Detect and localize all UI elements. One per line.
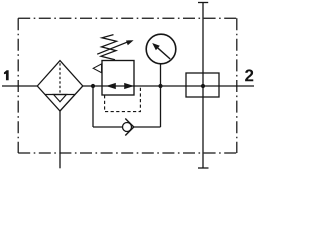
water separator line — [45, 94, 75, 96]
wire: drain line — [59, 111, 61, 168]
node A junction (bypass tap) — [91, 84, 95, 88]
wire: bypass bottom right segment — [134, 126, 161, 128]
wire: bypass down leg — [92, 86, 94, 127]
enclosure (unit boundary, dash-dot) — [18, 17, 237, 19]
regulator flow arrow left — [106, 83, 116, 89]
check valve V1 seat — [125, 119, 134, 136]
gauge needle head — [152, 43, 160, 50]
node C junction (branch) — [201, 84, 205, 88]
regulator relief vent triangle — [93, 64, 101, 73]
regulator flow arrow right — [124, 83, 134, 89]
wire: bypass return up leg — [160, 86, 162, 127]
wire: bypass bottom left segment — [93, 126, 123, 128]
wire: vertical branch line — [202, 3, 204, 169]
condensate drain triangle — [54, 95, 67, 102]
regulator spring — [101, 35, 117, 60]
branch module block — [186, 73, 219, 97]
regulator R1 body — [102, 61, 134, 96]
wire: inlet line port 1 to filter — [2, 85, 37, 87]
adjustment arrow shaft — [97, 42, 128, 55]
check valve V1 ball — [123, 123, 132, 132]
adjustment arrow head — [126, 40, 134, 45]
gauge needle shaft — [158, 48, 171, 59]
filter F1 body (diamond) — [37, 61, 83, 111]
wire: gauge stem — [160, 64, 162, 86]
top port T-bar — [198, 2, 208, 4]
bottom port T-bar — [198, 167, 209, 169]
node B junction (gauge / bypass) — [158, 84, 162, 88]
pressure gauge G1 — [146, 34, 176, 64]
port label 2 — [245, 69, 253, 81]
pilot sensing line (dashed) — [105, 87, 141, 111]
filter element (dashed) — [59, 63, 61, 94]
port label 1 — [4, 70, 9, 80]
wire: main line filter to port 2 — [83, 85, 254, 87]
